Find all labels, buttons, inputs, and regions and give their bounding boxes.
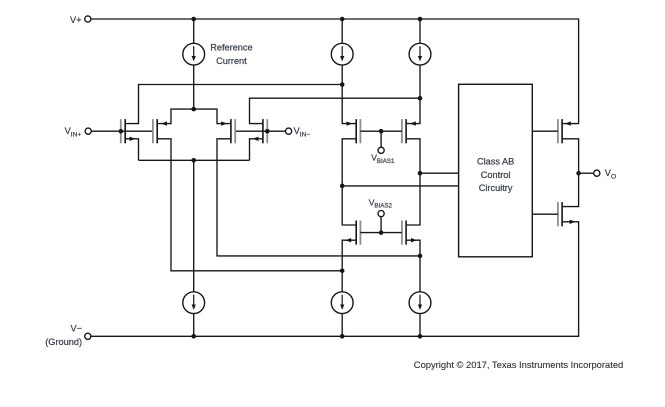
wire Q8 source down to current source I6: [407, 240, 420, 292]
arrow Q1 source: [130, 137, 136, 141]
current source I3: [409, 43, 431, 65]
current source I6: [409, 292, 431, 314]
terminal VBIAS2: [378, 211, 384, 217]
terminal VIN+: [85, 128, 91, 134]
transistor Q10 (output NMOS): [558, 202, 562, 226]
node VBIAS2: [379, 230, 384, 235]
transistor Q9 (output PMOS): [558, 119, 562, 143]
wire I2 to Q5 drain: [342, 65, 355, 124]
transistor Q5 (cascode, VBIAS1 left): [356, 119, 360, 143]
wire rail to current source I3: [419, 19, 421, 43]
wire I6 to V- rail: [419, 314, 421, 337]
wire VBIAS2 stem: [380, 217, 382, 233]
svg-text:Control: Control: [481, 170, 511, 180]
transistor Q3 (PMOS input, VIN-): [231, 119, 235, 143]
terminal VO: [594, 170, 600, 176]
wire tap to Class AB box (upper): [420, 172, 459, 174]
current source I2: [331, 43, 353, 65]
junction top rail / current source I3: [418, 17, 423, 22]
copyright notice: [414, 359, 623, 370]
wire I3 to Q6 drain: [407, 65, 420, 124]
label VIN+: [65, 126, 82, 138]
wire V- rail to output NMOS source stub: [91, 222, 579, 336]
svg-text:Class AB: Class AB: [477, 157, 514, 167]
block Class AB Control Circuitry: [459, 84, 533, 256]
wire I5 to V- rail: [341, 314, 343, 337]
arrow Q6 source: [410, 121, 416, 125]
wire I4 to V- rail: [193, 314, 195, 337]
transistor Q6 (cascode, VBIAS1 right): [402, 119, 406, 143]
wire rail to reference current source: [193, 19, 195, 43]
junction V- rail / I5: [340, 334, 345, 339]
arrow Q5 source: [347, 121, 353, 125]
wire VIN- to gates of Q4 Q3: [235, 130, 285, 132]
junction I3 branch / Q4 drain: [418, 96, 423, 101]
svg-text:Copyright © 2017, Texas Instru: Copyright © 2017, Texas Instruments Inco…: [414, 359, 623, 370]
wire Q1 drain up to current source I2: [126, 85, 342, 124]
junction VIN- / Q4 gate: [265, 129, 270, 134]
wire NMOS pair tail: [139, 159, 250, 161]
wire Class AB to Q10 gate: [532, 213, 558, 215]
svg-text:V−: V−: [71, 324, 83, 334]
arrow Q3 source: [221, 121, 227, 125]
wire Q7-Q8 gate line: [360, 232, 402, 234]
arrow Q9 source: [565, 121, 571, 125]
current source I4: [183, 292, 205, 314]
arrow Q7 source: [345, 238, 351, 242]
label VBIAS1: [371, 153, 395, 165]
svg-text:(Ground): (Ground): [45, 337, 82, 347]
wire Q5-Q6 gate line: [360, 130, 402, 132]
transistor Q7 (VBIAS2 left): [356, 221, 360, 245]
wire Q3 drain down to mirror node: [217, 139, 420, 256]
terminal V-: [85, 333, 91, 339]
label VIN-: [294, 126, 311, 138]
wire Q7 source down to current source I5: [342, 240, 355, 292]
wire Q4 source down: [250, 139, 263, 161]
terminal VIN-: [286, 128, 292, 134]
wire Q2 drain down to mirror node: [158, 139, 342, 271]
junction I2 branch / Q1 drain: [340, 82, 345, 87]
node PMOS tail: [191, 107, 196, 112]
label V+: [70, 15, 82, 25]
junction Q3 drain / I6 branch: [418, 254, 423, 259]
transistor Q1 (NMOS input, VIN+): [121, 119, 125, 143]
label Reference Current: [210, 43, 252, 67]
terminal VBIAS1: [378, 147, 384, 153]
arrow Q2 source: [161, 121, 167, 125]
wire Class AB to Q9 gate: [532, 130, 558, 132]
current source I1 Reference Current: [183, 43, 205, 65]
junction V- rail / I4: [191, 334, 196, 339]
svg-text:Reference: Reference: [210, 43, 252, 53]
wire PMOS pair tail: [158, 109, 230, 124]
svg-text:V+: V+: [70, 15, 82, 25]
wire Q6 source down to Q8 drain: [407, 139, 420, 225]
wire output node to VO terminal: [579, 172, 594, 174]
wire reference current to PMOS pair tail: [193, 65, 195, 109]
junction Q2 drain / I5 branch: [340, 269, 345, 274]
wire VIN+ to gates of Q1 Q2: [91, 130, 153, 132]
junction Q5 branch / class AB tap: [340, 184, 345, 189]
terminal V+: [85, 16, 91, 22]
svg-text:Circuitry: Circuitry: [479, 183, 513, 193]
arrow Q8 source: [411, 238, 417, 242]
transistor Q8 (VBIAS2 right): [402, 221, 406, 245]
junction top rail / reference current: [191, 17, 196, 22]
junction top rail / current source I2: [340, 17, 345, 22]
wire V+ rail to output PMOS drain stub: [91, 19, 579, 124]
wire NMOS tail to current source I4: [193, 160, 195, 292]
arrow Q4 source: [253, 137, 259, 141]
node VO: [576, 171, 581, 176]
junction Q6 branch / class AB tap: [418, 171, 423, 176]
wire Q9 drain to Q10 drain (output node): [563, 139, 579, 207]
wire VBIAS1 stem: [380, 131, 382, 147]
transistor Q4 (NMOS input, VIN-): [263, 119, 267, 143]
transistor Q2 (PMOS input, VIN+): [153, 119, 157, 143]
wire Q4 drain up to current source I3: [250, 98, 421, 123]
current source I5: [331, 292, 353, 314]
junction V- rail / I6: [418, 334, 423, 339]
label VBIAS2: [369, 198, 393, 210]
junction VIN+ / Q1 gate: [119, 129, 124, 134]
arrow Q10 source: [570, 220, 576, 224]
node VBIAS1: [379, 129, 384, 134]
label VO: [605, 168, 616, 180]
node NMOS tail: [191, 158, 196, 163]
label V- (Ground): [45, 324, 82, 347]
wire Q5 source down to Q7 drain: [342, 139, 355, 225]
wire rail to current source I2: [341, 19, 343, 43]
wire tap to Class AB box (lower): [342, 185, 458, 187]
svg-text:Current: Current: [216, 56, 247, 66]
wire Q1 source down: [126, 139, 139, 161]
